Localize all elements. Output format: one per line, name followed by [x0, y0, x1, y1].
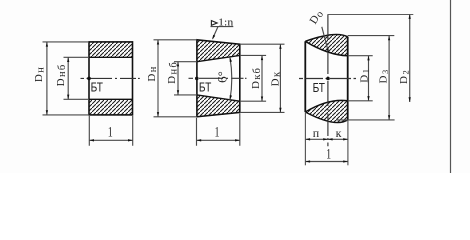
- svg-text:БТ: БТ: [199, 81, 212, 95]
- fig3 dimension line D2: [409, 15, 411, 103]
- fig1 hatch top band: [89, 42, 133, 57]
- fig3 dimension line D3: [388, 36, 390, 120]
- fig2 bore bottom edge: [197, 95, 240, 101]
- svg-text:1: 1: [108, 125, 113, 141]
- fig3 outer arc top: [305, 35, 347, 42]
- svg-text:1: 1: [215, 125, 220, 141]
- svg-text:Dнб: Dнб: [166, 61, 179, 84]
- svg-text:БТ: БТ: [91, 81, 104, 95]
- svg-text:6°: 6°: [214, 71, 229, 83]
- fig2 taper symbol and 1:n label: [211, 21, 217, 26]
- fig2 base point dot: [195, 77, 199, 81]
- svg-text:к: к: [336, 126, 342, 140]
- fig1 axis centerline: [81, 77, 140, 79]
- fig3 bore arc top: [305, 41, 347, 55]
- fig2 extension lines for Dн: [154, 40, 197, 117]
- fig3 vertical centerline: [327, 14, 329, 146]
- svg-text:Dн: Dн: [33, 66, 46, 82]
- fig3 outer arc bottom: [305, 112, 347, 123]
- svg-text:п: п: [313, 126, 320, 140]
- svg-text:Dк: Dк: [269, 71, 282, 87]
- fig3 left end face: [304, 41, 306, 112]
- fig2 bore top edge: [197, 55, 240, 61]
- fig2 outer contour: [197, 40, 240, 117]
- fig3 extension lines D3: [336, 36, 395, 120]
- fig1 bore bottom edge: [89, 98, 133, 100]
- fig2 dimension line Dкб: [261, 55, 263, 101]
- fig3 dimension line D1: [368, 56, 370, 101]
- fig3 dimension line l: [305, 161, 348, 163]
- fig1 dimension line Dн: [46, 42, 48, 115]
- fig2 bore angle arc 6°: [230, 57, 232, 100]
- fig3 dimension line п and к: [305, 138, 348, 140]
- fig2 axis centerline: [189, 77, 247, 79]
- fig3 right end face: [347, 37, 349, 120]
- fig2 dimension line Dнб: [177, 62, 179, 95]
- fig3 base point dot: [326, 77, 330, 81]
- fig3 extension line right below: [347, 120, 349, 165]
- svg-text:D3: D3: [378, 69, 390, 84]
- fig1 base point dot: [87, 77, 91, 81]
- fig2 extension lines for Dк: [240, 44, 285, 112]
- fig2 extension lines for Dкб: [240, 55, 266, 101]
- fig2 dimension line Dн: [157, 40, 159, 117]
- fig3 extension line left below: [304, 112, 306, 165]
- fig3 hatch bottom lens: [305, 100, 347, 122]
- svg-text:D1: D1: [359, 68, 371, 83]
- fig2 dimension line Dк: [279, 44, 281, 112]
- svg-text:D2: D2: [398, 69, 410, 84]
- fig3 hatch top lens: [305, 35, 347, 56]
- fig3 shelf line for D2: [328, 14, 413, 16]
- fig1 extension lines for l: [89, 116, 132, 146]
- fig1 dimension line l: [89, 139, 132, 141]
- fig3 axis centerline: [299, 78, 356, 80]
- page background: [0, 0, 470, 173]
- fig2 hatch bottom band: [197, 95, 240, 117]
- svg-text:БТ: БТ: [313, 81, 326, 95]
- fig1 extension lines for Dн: [43, 42, 90, 115]
- fig1 outer contour: [89, 42, 133, 115]
- table rule at right edge: [450, 0, 452, 173]
- fig3 extension lines D1: [348, 56, 373, 101]
- fig1 hatch bottom band: [89, 99, 133, 115]
- fig2 hatch top band: [197, 40, 240, 62]
- fig2 leader to taper surface: [213, 27, 218, 39]
- fig2 dimension line l: [197, 139, 240, 141]
- fig2 extension lines for Dнб: [174, 62, 197, 95]
- fig1 dimension line Dнб: [67, 57, 69, 99]
- fig1 bore top edge: [89, 56, 133, 58]
- fig1 extension lines for Dнб: [64, 57, 90, 99]
- svg-text:Dнб: Dнб: [55, 64, 68, 87]
- svg-text:1: 1: [326, 146, 331, 162]
- svg-text:Dн: Dн: [146, 65, 159, 81]
- fig3 bore arc bottom: [305, 100, 347, 112]
- svg-text:Dкб: Dкб: [250, 67, 263, 89]
- fig2 extension lines for l: [197, 114, 240, 146]
